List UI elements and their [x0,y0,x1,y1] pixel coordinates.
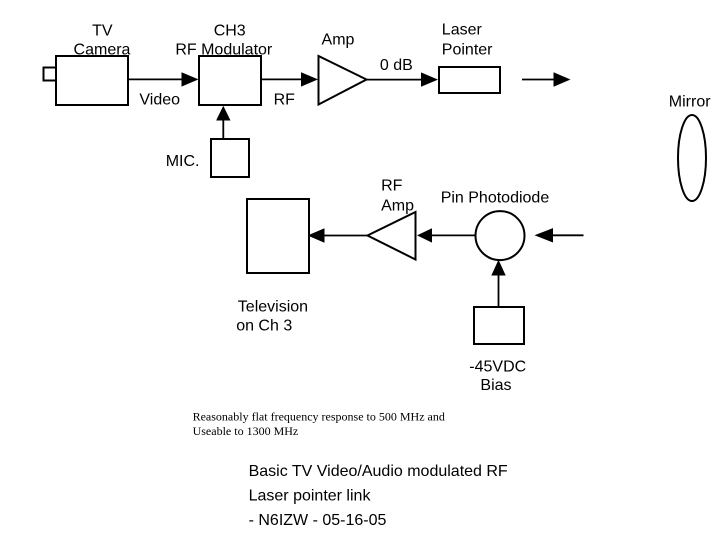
wire bias to photodiode [498,275,500,307]
svg-text:Television: Television [238,299,308,316]
svg-text:Video: Video [139,92,180,109]
svg-text:Bias: Bias [480,377,511,394]
title Basic TV Video/Audio modulated RF Laser pointer link [249,463,508,529]
pin photodiode circle [476,211,525,260]
svg-text:Useable to 1300 MHz: Useable to 1300 MHz [193,424,299,438]
svg-text:Mirror: Mirror [669,94,711,111]
laser pointer box [439,67,500,93]
arrowhead into modulator [182,72,199,86]
svg-text:-45VDC: -45VDC [469,358,526,375]
wire laser output [522,79,554,81]
TV camera box [56,56,128,105]
svg-text:Pin Photodiode: Pin Photodiode [441,190,550,207]
svg-text:CH3: CH3 [214,22,246,39]
svg-text:Pointer: Pointer [442,42,493,59]
wire amp to laser pointer [367,79,422,81]
label TV Camera [74,22,131,58]
svg-text:RF: RF [381,178,403,195]
label Television on Ch 3 [236,299,308,335]
note frequency response [193,410,445,439]
arrowhead into photodiode [535,228,554,242]
arrowhead into television [308,228,325,242]
label Laser Pointer [442,21,493,58]
svg-text:TV: TV [92,22,113,39]
wire camera to modulator [128,78,183,80]
label RF Amp [381,178,414,215]
label CH3 RF Modulator [175,22,273,58]
svg-text:Reasonably flat frequency resp: Reasonably flat frequency response to 50… [193,410,445,424]
wire beam into photodiode [553,234,584,236]
label -45VDC Bias [469,358,526,394]
arrowhead into laser pointer [421,72,438,86]
svg-text:on Ch 3: on Ch 3 [236,318,292,335]
svg-text:Laser: Laser [442,21,483,38]
MIC box [211,139,249,177]
svg-text:Basic TV Video/Audio modulated: Basic TV Video/Audio modulated RF [249,463,508,480]
svg-text:Amp: Amp [322,32,355,49]
arrowhead into amp [301,72,318,86]
svg-text:Amp: Amp [381,198,414,215]
svg-text:- N6IZW - 05-16-05: - N6IZW - 05-16-05 [249,512,387,529]
arrowhead bias into photodiode [491,260,505,276]
svg-text:Laser pointer link: Laser pointer link [249,488,372,505]
amplifier triangle [319,56,367,105]
wire mic to modulator [222,120,224,139]
CH3 RF modulator box [199,56,261,105]
television box [247,199,309,273]
wire rf amp to television [324,235,368,237]
wire photodiode to rf amp [431,234,476,236]
arrowhead mic into modulator [216,106,230,121]
svg-text:0 dB: 0 dB [380,57,413,74]
mirror ellipse [678,115,706,201]
wire modulator to amp [261,78,302,80]
svg-text:RF: RF [274,92,296,109]
camera lens box [44,68,57,81]
rf amp triangle [368,212,416,260]
bias supply box [474,307,524,344]
arrowhead laser beam [554,72,571,86]
svg-text:MIC.: MIC. [166,153,200,170]
arrowhead into rf amp [417,228,432,242]
